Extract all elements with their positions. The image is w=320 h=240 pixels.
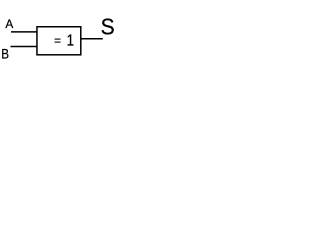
svg-text:A: A	[5, 17, 13, 31]
gate body U1 (IEC XOR box)	[37, 27, 81, 55]
svg-text:B: B	[1, 47, 9, 62]
XOR gate schematic	[0, 0, 121, 74]
wire output S	[81, 38, 103, 40]
wire input A	[11, 31, 37, 33]
svg-text:S: S	[101, 13, 115, 39]
svg-text:1: 1	[67, 32, 74, 49]
wire input B	[11, 45, 38, 47]
svg-text:=: =	[54, 34, 61, 48]
